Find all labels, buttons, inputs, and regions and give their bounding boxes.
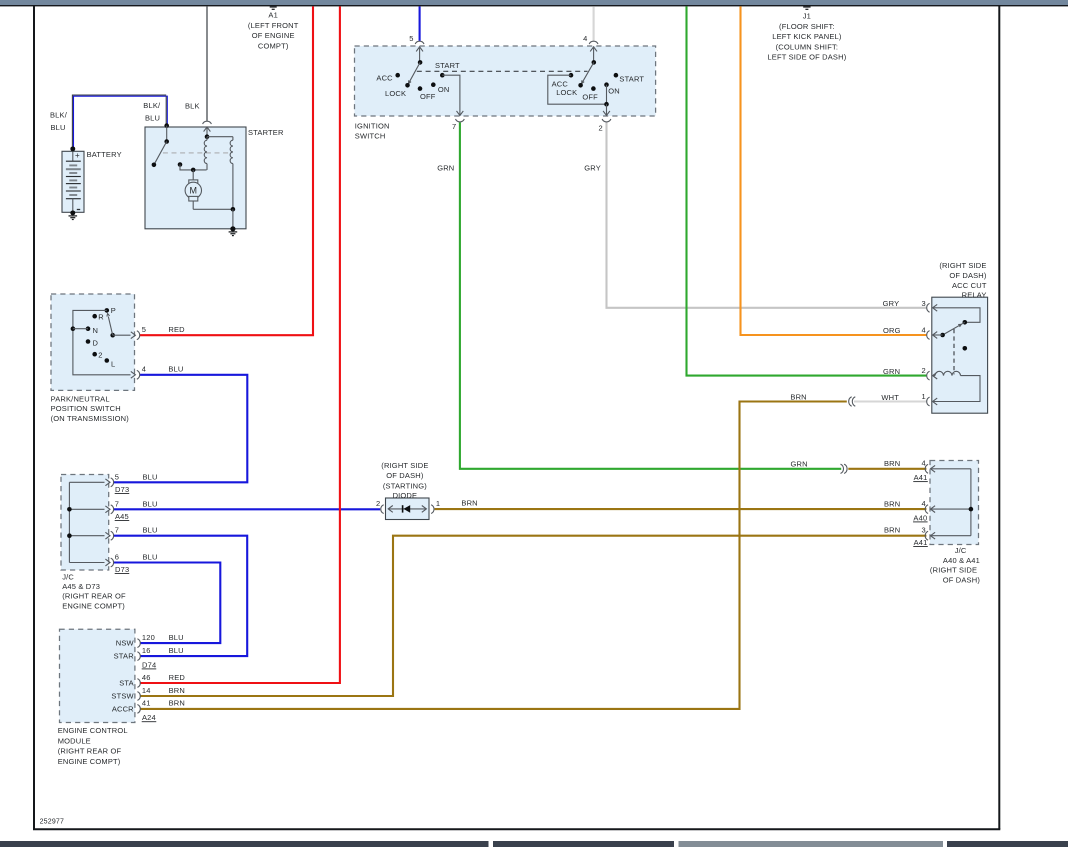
svg-text:OFF: OFF [420, 92, 436, 101]
svg-text:A45: A45 [115, 512, 129, 521]
svg-text:5: 5 [142, 325, 146, 334]
svg-text:D74: D74 [142, 660, 156, 669]
svg-text:5: 5 [115, 472, 119, 481]
svg-text:7: 7 [452, 122, 456, 131]
svg-text:D73: D73 [115, 565, 129, 574]
svg-text:J1: J1 [803, 11, 811, 20]
svg-text:46: 46 [142, 673, 151, 682]
svg-text:M: M [189, 186, 197, 196]
svg-text:(RIGHT REAR OF: (RIGHT REAR OF [58, 747, 122, 756]
svg-text:RELAY: RELAY [962, 291, 987, 300]
svg-text:POSITION SWITCH: POSITION SWITCH [51, 404, 121, 413]
svg-text:(RIGHT SIDE: (RIGHT SIDE [930, 565, 977, 574]
svg-text:START: START [435, 61, 460, 70]
svg-text:GRN: GRN [883, 367, 900, 376]
svg-text:BLU: BLU [145, 114, 160, 123]
svg-text:OF ENGINE: OF ENGINE [252, 31, 295, 40]
svg-text:STAR: STAR [114, 652, 135, 661]
svg-text:GRN: GRN [791, 459, 808, 468]
svg-text:A24: A24 [142, 713, 156, 722]
svg-text:BLU: BLU [169, 646, 184, 655]
svg-text:7: 7 [115, 499, 119, 508]
svg-text:BRN: BRN [884, 499, 900, 508]
svg-text:BLU: BLU [143, 499, 158, 508]
svg-text:OFF: OFF [582, 93, 598, 102]
svg-text:2: 2 [598, 123, 602, 132]
svg-text:4: 4 [142, 364, 146, 373]
svg-text:D: D [93, 338, 99, 347]
svg-text:ENGINE COMPT): ENGINE COMPT) [62, 601, 125, 610]
svg-text:BRN: BRN [461, 499, 477, 508]
svg-text:LOCK: LOCK [385, 89, 406, 98]
svg-text:ORG: ORG [883, 326, 901, 335]
svg-text:BRN: BRN [884, 459, 900, 468]
svg-text:(STARTING): (STARTING) [383, 482, 427, 491]
svg-text:OF DASH): OF DASH) [386, 471, 424, 480]
svg-text:BRN: BRN [790, 393, 806, 402]
svg-text:ON: ON [608, 87, 620, 96]
svg-text:STSW: STSW [111, 692, 134, 701]
svg-text:3: 3 [921, 299, 925, 308]
svg-text:SWITCH: SWITCH [355, 131, 386, 140]
svg-text:STA: STA [119, 679, 134, 688]
svg-text:+: + [75, 151, 80, 160]
svg-text:BLU: BLU [169, 633, 184, 642]
svg-text:BLK/: BLK/ [50, 111, 68, 120]
svg-text:16: 16 [142, 646, 151, 655]
svg-text:(FLOOR SHIFT:: (FLOOR SHIFT: [779, 22, 835, 31]
svg-text:LEFT KICK PANEL): LEFT KICK PANEL) [772, 32, 842, 41]
svg-text:L: L [111, 360, 115, 369]
svg-text:4: 4 [921, 325, 925, 334]
svg-text:A41: A41 [914, 538, 928, 547]
svg-text:(ON TRANSMISSION): (ON TRANSMISSION) [51, 414, 130, 423]
svg-text:(RIGHT SIDE: (RIGHT SIDE [939, 261, 986, 270]
svg-text:ENGINE CONTROL: ENGINE CONTROL [58, 726, 128, 735]
svg-text:A45 & D73: A45 & D73 [62, 582, 100, 591]
svg-text:LOCK: LOCK [556, 88, 577, 97]
svg-text:(LEFT FRONT: (LEFT FRONT [248, 21, 299, 30]
svg-text:3: 3 [921, 526, 925, 535]
svg-text:5: 5 [409, 34, 413, 43]
svg-text:GRN: GRN [437, 163, 454, 172]
svg-text:4: 4 [921, 499, 925, 508]
svg-text:J/C: J/C [62, 572, 74, 581]
svg-text:ACC: ACC [376, 74, 393, 83]
svg-text:PARK/NEUTRAL: PARK/NEUTRAL [51, 395, 110, 404]
svg-text:COMPT): COMPT) [258, 42, 289, 51]
svg-text:OF DASH): OF DASH) [943, 575, 981, 584]
svg-text:BRN: BRN [169, 699, 185, 708]
svg-text:ENGINE COMPT): ENGINE COMPT) [58, 757, 121, 766]
svg-text:A41: A41 [914, 473, 928, 482]
svg-text:NSW: NSW [116, 639, 135, 648]
svg-text:2: 2 [98, 351, 102, 360]
svg-text:6: 6 [115, 553, 119, 562]
svg-text:1: 1 [921, 392, 925, 401]
svg-text:IGNITION: IGNITION [355, 122, 390, 131]
svg-text:ACC: ACC [552, 79, 569, 88]
svg-text:A1: A1 [268, 10, 278, 19]
svg-text:BLK: BLK [185, 101, 200, 110]
svg-text:START: START [619, 74, 644, 83]
svg-text:BRN: BRN [169, 686, 185, 695]
svg-text:BRN: BRN [884, 526, 900, 535]
svg-text:ON: ON [438, 85, 450, 94]
svg-text:OF DASH): OF DASH) [949, 271, 987, 280]
svg-text:41: 41 [142, 699, 151, 708]
svg-text:RED: RED [168, 325, 185, 334]
svg-text:P: P [111, 306, 116, 315]
svg-text:(RIGHT SIDE: (RIGHT SIDE [381, 461, 428, 470]
svg-text:RED: RED [169, 673, 186, 682]
svg-text:BLK/: BLK/ [143, 101, 161, 110]
svg-text:A40: A40 [913, 513, 927, 522]
svg-text:BLU: BLU [143, 472, 158, 481]
svg-text:1: 1 [436, 499, 440, 508]
svg-text:BATTERY: BATTERY [87, 150, 122, 159]
svg-text:120: 120 [142, 633, 155, 642]
svg-text:ACCR: ACCR [112, 705, 134, 714]
svg-text:4: 4 [583, 34, 587, 43]
svg-text:2: 2 [921, 366, 925, 375]
svg-text:4: 4 [921, 459, 925, 468]
svg-text:J/C: J/C [955, 546, 967, 555]
svg-text:BLU: BLU [51, 123, 66, 132]
svg-text:7: 7 [115, 526, 119, 535]
svg-text:2: 2 [376, 499, 380, 508]
svg-text:A40 & A41: A40 & A41 [943, 556, 980, 565]
svg-text:GRY: GRY [883, 299, 900, 308]
svg-text:STARTER: STARTER [248, 128, 284, 137]
svg-text:MODULE: MODULE [58, 736, 91, 745]
svg-text:LEFT SIDE OF DASH): LEFT SIDE OF DASH) [767, 53, 846, 62]
svg-text:GRY: GRY [584, 163, 601, 172]
svg-text:BLU: BLU [143, 526, 158, 535]
svg-text:(COLUMN SHIFT:: (COLUMN SHIFT: [776, 42, 839, 51]
svg-text:ACC CUT: ACC CUT [952, 281, 987, 290]
svg-text:14: 14 [142, 686, 151, 695]
svg-text:BLU: BLU [143, 553, 158, 562]
svg-text:WHT: WHT [881, 393, 899, 402]
svg-text:DIODE: DIODE [393, 491, 418, 500]
svg-text:BLU: BLU [168, 364, 183, 373]
svg-text:(RIGHT REAR OF: (RIGHT REAR OF [62, 592, 126, 601]
svg-text:R: R [98, 313, 104, 322]
svg-text:N: N [93, 326, 99, 335]
svg-text:D73: D73 [115, 485, 129, 494]
svg-text:252977: 252977 [40, 819, 64, 826]
